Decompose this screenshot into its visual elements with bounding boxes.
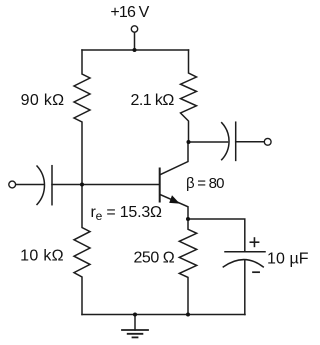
svg-text:re = 15.3Ω: re = 15.3Ω <box>91 204 163 223</box>
svg-text:2.1 kΩ: 2.1 kΩ <box>131 92 175 109</box>
svg-text:10 kΩ: 10 kΩ <box>20 248 64 265</box>
svg-text:250 Ω: 250 Ω <box>133 250 174 267</box>
svg-text:90 kΩ: 90 kΩ <box>21 92 65 109</box>
svg-text:β = 80: β = 80 <box>186 175 225 192</box>
svg-text:+16 V: +16 V <box>110 4 149 21</box>
svg-text:10 µF: 10 µF <box>267 251 309 268</box>
